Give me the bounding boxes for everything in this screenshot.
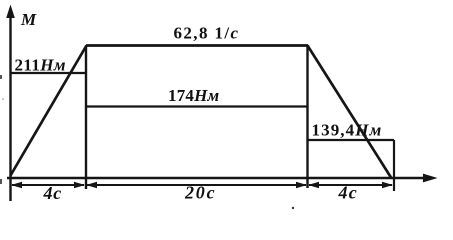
dimension arrowhead right of 20c [296, 182, 307, 188]
faint dot left [2, 98, 4, 100]
x-axis arrowhead [423, 174, 438, 183]
dimension arrowhead left of 4c [11, 182, 22, 188]
svg-text:211Нм: 211Нм [15, 56, 66, 75]
right vertical edge of 139,4Nm box [393, 140, 395, 191]
svg-text:62,8 1/с: 62,8 1/с [174, 24, 240, 43]
dimension arrowhead right of right 4c [382, 182, 393, 188]
211Nm level line [11, 72, 87, 74]
plateau top line [86, 44, 308, 47]
dimension arrowhead left of right 4c [308, 182, 319, 188]
svg-text:M: M [20, 10, 37, 29]
edge speck left upper [0, 75, 2, 79]
svg-text:174Нм: 174Нм [168, 86, 220, 105]
svg-text:4с: 4с [338, 182, 358, 202]
left vertical at t=4c [85, 46, 87, 190]
svg-text:139,4Нм: 139,4Нм [312, 120, 383, 139]
dimension line 20c [87, 184, 306, 186]
y-axis M [9, 13, 11, 201]
y-axis arrowhead [6, 5, 15, 19]
dimension line 4c (left) [12, 184, 84, 186]
dimension line 4c (right) [309, 184, 392, 186]
right vertical at t=24c [306, 46, 308, 189]
dimension arrowhead right of 4c [74, 182, 85, 188]
x-axis [7, 177, 426, 179]
svg-text:20с: 20с [184, 183, 216, 203]
dimension arrowhead left of 20c [86, 182, 97, 188]
139,4Nm level line [308, 139, 395, 141]
falling ramp line [308, 46, 392, 178]
svg-text:4с: 4с [43, 183, 63, 203]
rising ramp line [11, 46, 87, 176]
edge speck left lower [0, 179, 2, 184]
speck dot bottom [292, 207, 294, 209]
174Nm level line [86, 105, 308, 107]
